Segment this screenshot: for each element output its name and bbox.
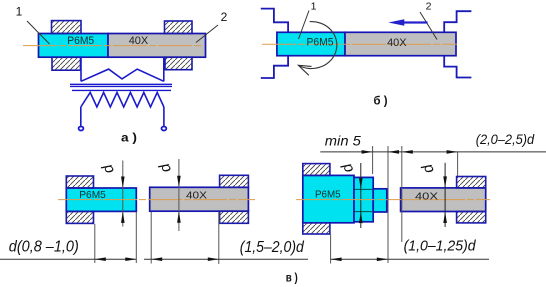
svg-text:(1,0–1,25)d: (1,0–1,25)d	[404, 238, 477, 255]
clamp top (fig v right p2)	[457, 177, 486, 188]
chuck left (fig b)	[261, 9, 288, 78]
axial force arrow (fig b)	[388, 19, 427, 25]
svg-text:Р6М5: Р6М5	[307, 36, 334, 48]
billet 1 P6M5 bar (fig b)	[277, 32, 345, 55]
dimension line d(0,8-1,0) (fig v left)	[0, 239, 136, 262]
clamp bottom-left (fig a)	[52, 57, 81, 70]
centerline (fig a)	[23, 45, 203, 47]
dimension line (1,5-2,0)d (fig v left)	[144, 239, 308, 261]
primary right lead (fig a)	[163, 107, 165, 126]
svg-text:Р6М5: Р6М5	[315, 189, 341, 201]
secondary loop left leg (fig a)	[80, 58, 82, 82]
clamp top-right (fig a)	[165, 21, 193, 34]
primary winding zigzag (fig a)	[81, 92, 164, 107]
svg-text:d: d	[99, 161, 118, 176]
billet 2 40X bar (fig a)	[108, 34, 206, 58]
svg-text:(1,5–2,0)d: (1,5–2,0)d	[240, 239, 305, 256]
svg-text:Р6М5: Р6М5	[67, 35, 94, 47]
primary left lead (fig a)	[80, 107, 82, 126]
terminal circle left (fig a)	[79, 127, 84, 131]
svg-text:d: d	[338, 161, 357, 176]
clamp top (fig v left p2)	[220, 175, 249, 187]
svg-text:40Х: 40Х	[186, 190, 207, 202]
clamp top-left (fig a)	[52, 21, 82, 34]
billet 1 P6M5 middle section (fig v right)	[354, 177, 373, 221]
svg-text:1: 1	[311, 1, 317, 13]
chuck right (fig b)	[444, 11, 471, 77]
svg-text:min 5: min 5	[325, 133, 362, 148]
clamp bottom (fig v right p1)	[303, 223, 330, 234]
clamp bottom (fig v left p1)	[66, 211, 93, 223]
billet 2 40X bar (fig b)	[345, 32, 456, 55]
d dimension piece2 (fig v right)	[419, 161, 447, 227]
centerline (fig b)	[262, 43, 457, 45]
clamp bottom (fig v left p2)	[220, 211, 249, 223]
svg-text:40Х: 40Х	[415, 191, 438, 203]
d dimension piece2 (fig v left)	[156, 159, 181, 231]
svg-text:40Х: 40Х	[129, 35, 149, 47]
secondary winding zigzag (fig a)	[81, 69, 164, 81]
d dimension piece1 (fig v left)	[99, 161, 125, 227]
svg-text:d(0,8 –1,0): d(0,8 –1,0)	[9, 239, 79, 256]
top dimension line min5 and (2,0-2,5)d (fig v right)	[320, 131, 546, 154]
clamp bottom (fig v right p2)	[457, 212, 486, 223]
billet 2 40X rod (fig v left)	[150, 187, 249, 211]
extension lines (fig v right)	[331, 146, 458, 264]
svg-text:d: d	[419, 161, 438, 176]
svg-text:а ): а )	[121, 130, 137, 144]
svg-text:(2,0–2,5)d: (2,0–2,5)d	[476, 131, 536, 147]
leader 1 (fig b)	[299, 1, 317, 39]
billet 1 stub (fig v right)	[373, 189, 387, 212]
d dimension piece1 (fig v right)	[338, 161, 363, 228]
billet 1 P6M5 head block (fig v right)	[303, 175, 354, 222]
leader 2 (fig b)	[420, 1, 437, 40]
billet 1 P6M5 bar (fig a)	[39, 34, 109, 58]
svg-text:б ): б )	[374, 94, 388, 108]
svg-text:в ): в )	[286, 270, 298, 284]
leader 1 (fig a)	[16, 5, 50, 45]
clamp top (fig v right p1)	[303, 164, 330, 176]
svg-text:1: 1	[16, 5, 23, 19]
leader 2 (fig a)	[196, 10, 228, 43]
bottom dimension line (1,0-1,25)d (fig v right)	[331, 238, 489, 262]
svg-text:d: d	[156, 160, 175, 175]
secondary loop right leg (fig a)	[163, 58, 165, 82]
terminal circle right (fig a)	[162, 127, 167, 131]
centerline (fig v right)	[296, 199, 490, 201]
svg-text:40Х: 40Х	[387, 37, 407, 49]
stub edge extension lines inside block (fig v right)	[355, 189, 374, 211]
svg-text:2: 2	[426, 1, 432, 13]
transformer core lines (fig a)	[70, 84, 172, 90]
svg-text:2: 2	[221, 10, 228, 24]
centerline (fig v left)	[58, 199, 255, 201]
billet 2 40X rod (fig v right)	[401, 188, 486, 212]
clamp top (fig v left p1)	[66, 176, 93, 188]
extension lines (fig v left)	[95, 212, 219, 264]
billet 1 P6M5 rod (fig v left)	[66, 188, 136, 211]
clamp bottom-right (fig a)	[165, 57, 192, 69]
rotation arrow arc (fig b)	[298, 22, 336, 76]
